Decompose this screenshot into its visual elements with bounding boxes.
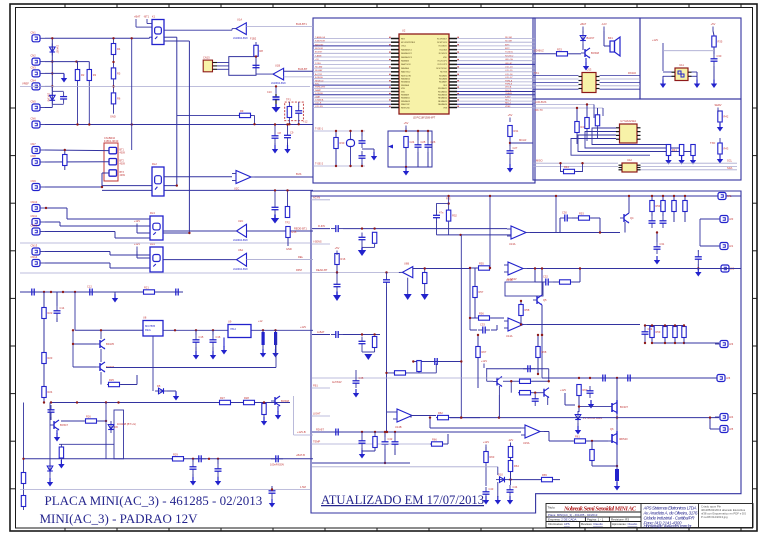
wire (411, 415, 436, 417)
svg-text:RB0/AN12: RB0/AN12 (401, 78, 410, 81)
capacitor C31 (654, 242, 665, 254)
transistor BC548 (581, 48, 599, 58)
connector CN7 (31, 142, 46, 154)
capacitor (359, 436, 366, 448)
svg-text:J20: J20 (729, 217, 734, 221)
wire (448, 196, 450, 210)
svg-text:BUZ-BT1: BUZ-BT1 (296, 22, 307, 26)
svg-text:+5V: +5V (335, 246, 340, 250)
resistor R29 (171, 452, 185, 461)
svg-text:K1: K1 (152, 15, 156, 19)
ground arrow large 2 (271, 215, 279, 224)
diode (47, 463, 53, 475)
wire (587, 440, 608, 442)
ground (614, 482, 620, 491)
wire (149, 37, 151, 38)
svg-text:100nF/630V: 100nF/630V (270, 463, 284, 467)
resistor R64 (508, 461, 519, 472)
svg-text:4u7/63V: 4u7/63V (507, 277, 517, 281)
svg-text:SCL: SCL (727, 159, 733, 163)
svg-text:U1A: U1A (237, 18, 242, 22)
wire (114, 292, 116, 295)
ground (47, 478, 53, 487)
op-amp U6B left-pointing (402, 262, 412, 278)
wire (387, 411, 393, 413)
svg-text:+5V: +5V (508, 113, 513, 117)
resistor R21 (142, 286, 156, 295)
svg-text:RX-TX: RX-TX (535, 108, 543, 112)
ground (575, 426, 581, 435)
svg-text:Q5: Q5 (543, 298, 547, 302)
svg-text:Titulo:: Titulo: (548, 506, 556, 510)
wire (247, 259, 314, 261)
svg-text:RA4/T0CKI: RA4/T0CKI (401, 63, 411, 66)
svg-text:R9: R9 (240, 109, 244, 113)
svg-text:RA7/CLKIN: RA7/CLKIN (401, 74, 411, 77)
svg-text:Q6: Q6 (610, 427, 614, 431)
svg-text:1N4148 (BT LG): 1N4148 (BT LG) (117, 422, 136, 426)
wire (72, 330, 74, 344)
svg-text:CN9: CN9 (31, 179, 37, 183)
wire (709, 418, 711, 429)
ground arrow large (272, 104, 281, 113)
svg-text:MINI(AC_3) - PADRAO 12V: MINI(AC_3) - PADRAO 12V (40, 511, 199, 526)
svg-text:RD-BT: RD-BT (316, 428, 324, 432)
bus wires opto left (533, 76, 640, 90)
wire (287, 190, 289, 206)
svg-text:R24: R24 (48, 390, 53, 394)
IC U2 PIC16F1939 body (399, 34, 449, 114)
svg-text:R26: R26 (86, 415, 91, 419)
wire (448, 222, 450, 235)
svg-text:LCD-E: LCD-E (315, 103, 322, 105)
resistor (372, 337, 376, 348)
wire (656, 233, 658, 243)
connector J26 (712, 375, 731, 382)
wire (559, 218, 561, 233)
ground (353, 389, 359, 398)
resistor R61 (573, 435, 587, 444)
wire (246, 26, 313, 28)
resistor (373, 437, 377, 448)
ground (215, 477, 221, 486)
svg-text:SDA: SDA (727, 166, 733, 170)
op-amp U13B (504, 262, 527, 282)
wire gate chain (544, 431, 549, 433)
wire (530, 232, 560, 234)
ground arrow large c4 (364, 354, 372, 360)
svg-text:CN4: CN4 (31, 78, 37, 82)
speaker BZ1 (608, 36, 620, 56)
wire (510, 142, 533, 144)
jumper JP3 (109, 170, 125, 177)
svg-text:LCD-D7: LCD-D7 (505, 77, 513, 79)
svg-text:U11: U11 (679, 63, 684, 67)
wire (663, 71, 672, 73)
svg-text:RE0/AN26: RE0/AN26 (438, 103, 447, 106)
ground arrow large c3 (421, 294, 429, 300)
wire (384, 432, 386, 437)
svg-text:TXD: TXD (710, 141, 715, 145)
op-amp U6A left-pointing (233, 248, 248, 271)
svg-text:T-SE-1: T-SE-1 (315, 127, 324, 131)
svg-text:R-INV: R-INV (318, 224, 325, 228)
capacitor 47n (433, 211, 444, 223)
connector J22 (716, 265, 735, 272)
svg-text:+12V: +12V (560, 388, 566, 392)
wire (77, 61, 90, 63)
svg-text:DRV-B: DRV-B (505, 90, 512, 92)
IC U7 MAX232A (616, 119, 641, 143)
capacitor C45 (353, 376, 364, 388)
connector CN3 (31, 65, 46, 77)
wire (45, 207, 67, 209)
wire y361 (413, 361, 461, 363)
svg-text:RC3/SCK: RC3/SCK (439, 53, 448, 55)
resistor R5 (111, 68, 121, 79)
connector CN9 (31, 179, 46, 191)
svg-text:CN1: CN1 (31, 30, 37, 34)
ground arrow large c1 (333, 292, 341, 302)
svg-text:RD4/AN7: RD4/AN7 (439, 81, 447, 84)
wire (331, 431, 521, 433)
svg-text:RB5/AN13: RB5/AN13 (401, 100, 410, 103)
wire (497, 482, 499, 497)
regulator U8 7805 (143, 321, 163, 337)
wire (417, 131, 419, 140)
jumper JP1 (109, 147, 125, 154)
wire (520, 301, 522, 304)
wire (509, 124, 511, 126)
svg-text:+12V: +12V (134, 219, 140, 223)
svg-text:+BAT: +BAT (580, 22, 587, 26)
wire (336, 273, 338, 280)
wire (64, 150, 66, 154)
svg-text:CN6: CN6 (31, 117, 37, 121)
bus net labels mcu left (315, 36, 326, 108)
svg-text:CN11: CN11 (31, 214, 38, 218)
net label +5V (404, 121, 409, 130)
capacitor (587, 386, 594, 398)
svg-text:R-S: R-S (446, 197, 451, 201)
op-amp U1A left-pointing (233, 18, 248, 41)
capacitor (523, 365, 535, 372)
svg-text:R31: R31 (514, 129, 519, 133)
resistor (518, 391, 532, 395)
svg-text:C43: C43 (489, 487, 494, 491)
relay RL2 (152, 162, 164, 196)
connector CN12 (31, 224, 46, 236)
svg-text:+BAT: +BAT (134, 15, 141, 19)
wire (100, 330, 102, 339)
wire (192, 459, 194, 462)
capacitor C30 (560, 211, 572, 222)
svg-text:SERV: SERV (714, 103, 721, 107)
resistor R3 (87, 70, 97, 81)
wire (508, 479, 540, 481)
wire (510, 445, 512, 446)
op-amp U1B left-pointing (271, 64, 286, 86)
wire (254, 115, 256, 124)
capacitor C16 (210, 335, 221, 347)
cap loop (437, 204, 449, 235)
svg-text:REL-2: REL-2 (505, 103, 512, 105)
wire (72, 344, 74, 367)
svg-text:RL3: RL3 (150, 211, 155, 215)
ground (272, 349, 278, 358)
wire (498, 386, 500, 395)
svg-text:S-REDE: S-REDE (315, 93, 323, 95)
capacitor C27 (507, 146, 518, 158)
svg-text:47n: 47n (439, 211, 444, 215)
wire y124 extension (310, 124, 313, 126)
resistor R26 (84, 415, 98, 424)
svg-text:GND: GND (286, 247, 292, 251)
wire row CN4 (45, 85, 52, 87)
svg-text:R15: R15 (292, 230, 297, 234)
capacitor (430, 358, 442, 365)
svg-text:R55: R55 (479, 262, 484, 266)
bus wire entry (311, 199, 330, 201)
wire (510, 472, 512, 485)
bus wires mcu right (457, 39, 535, 108)
svg-text:RC4/SDI: RC4/SDI (440, 49, 448, 51)
wire (247, 230, 314, 232)
wire long y378 (542, 377, 717, 379)
loop rect (114, 410, 124, 459)
wire vertical x131 (131, 38, 133, 150)
wire (163, 329, 313, 331)
wire (232, 28, 236, 30)
svg-text:BUZ-BT: BUZ-BT (298, 67, 308, 71)
transistor (493, 377, 502, 387)
wire K1 right top (164, 29, 232, 31)
IC U2 pin names (401, 38, 448, 109)
wire (485, 496, 487, 498)
svg-text:LIGHT: LIGHT (313, 412, 321, 416)
svg-text:J26: J26 (726, 376, 731, 380)
bus wire (663, 50, 714, 52)
wire (564, 393, 566, 405)
resistor (673, 327, 677, 338)
connector CN8 (31, 154, 46, 166)
wire (56, 292, 58, 306)
wire (548, 369, 550, 382)
svg-text:Aprovacao: Claudio: Aprovacao: Claudio (612, 522, 638, 526)
wire (45, 251, 110, 253)
bus wire y272 entry (312, 272, 399, 274)
svg-text:PWM-A: PWM-A (505, 79, 513, 82)
wire (477, 335, 479, 346)
svg-text:MCLR: MCLR (519, 138, 526, 142)
wire (554, 479, 560, 481)
net label +5V (711, 22, 716, 31)
svg-text:R5: R5 (117, 71, 121, 75)
wire rail y330 (75, 329, 143, 331)
wire (474, 268, 476, 286)
svg-text:CN8: CN8 (31, 154, 37, 158)
title block field labels (548, 506, 638, 527)
bus wire (312, 466, 498, 468)
resistor (661, 201, 665, 212)
ground (359, 450, 365, 459)
svg-text:RC2/CCP1: RC2/CCP1 (438, 61, 447, 63)
resistor R27 (218, 396, 232, 405)
wire row CN2 (45, 61, 77, 63)
capacitor C8 (272, 131, 282, 143)
svg-text:MC7805: MC7805 (145, 324, 156, 328)
svg-text:LCD-BUS: LCD-BUS (535, 100, 547, 104)
wire (662, 76, 664, 80)
svg-text:C24: C24 (410, 140, 415, 144)
wire (136, 251, 138, 258)
diode (50, 44, 56, 56)
wire (312, 462, 410, 464)
resistor R42 (718, 111, 729, 122)
resistor R25 (107, 378, 121, 387)
wire (668, 144, 670, 147)
wire (45, 149, 109, 152)
wire (624, 222, 626, 233)
wire (532, 392, 540, 394)
wire y228 long (343, 228, 507, 230)
svg-text:1N4148: 1N4148 (47, 93, 50, 102)
svg-text:7812: 7812 (230, 327, 236, 331)
capacitor C30 (711, 54, 722, 66)
wire (271, 486, 273, 490)
wire (61, 420, 84, 422)
svg-text:TP2: TP2 (285, 221, 290, 225)
wire (394, 432, 396, 437)
resistor (393, 371, 407, 375)
bus wire (533, 104, 594, 106)
svg-text:BT-EST: BT-EST (315, 52, 323, 54)
connector CN4 (31, 78, 46, 90)
svg-text:R65: R65 (542, 473, 547, 477)
resistor R15 (286, 227, 297, 238)
svg-text:C30: C30 (562, 211, 567, 215)
bus wire entry (311, 387, 330, 389)
wire nest loops (571, 128, 693, 155)
resistor R16 (335, 254, 346, 265)
resistor R55 (477, 262, 491, 271)
IC U11 (672, 63, 692, 81)
svg-text:+5V: +5V (711, 22, 716, 26)
wire (288, 118, 290, 124)
capacitor (359, 233, 366, 245)
net label -12V (601, 22, 607, 31)
wire (386, 273, 388, 276)
svg-text:PWM-DRV: PWM-DRV (315, 87, 326, 89)
ground (371, 152, 377, 161)
svg-text:RD6/AN5: RD6/AN5 (439, 74, 447, 77)
svg-text:R59: R59 (656, 330, 661, 334)
svg-text:NTC: NTC (315, 84, 320, 86)
svg-text:R57: R57 (479, 290, 484, 294)
wire x386 long vertical (386, 287, 388, 433)
capacitor (215, 464, 222, 476)
svg-text:Informacao: APS: Informacao: APS (548, 522, 570, 526)
connector CN6 (31, 117, 46, 129)
title block address (643, 506, 699, 529)
wire loop rect (229, 57, 256, 76)
wire (287, 238, 289, 246)
wire (444, 443, 448, 445)
svg-text:RA6/OSC2: RA6/OSC2 (401, 71, 410, 74)
capacitor (331, 225, 343, 232)
wire (527, 324, 640, 326)
connector J25 (715, 426, 734, 433)
resistor (21, 473, 25, 484)
bus wire rail (313, 165, 365, 167)
wire (361, 131, 363, 136)
capacitor (272, 203, 279, 215)
svg-text:U2 PIC16F1939-I/PT: U2 PIC16F1939-I/PT (413, 117, 436, 120)
svg-text:R4: R4 (117, 47, 121, 51)
resistor R9 (238, 109, 252, 118)
svg-text:LCD-D5: LCD-D5 (505, 70, 513, 72)
wire (45, 231, 115, 233)
resistor R24 (42, 387, 53, 398)
wire (102, 185, 177, 187)
net label -12V (508, 438, 514, 447)
resistor R68 (536, 347, 547, 358)
svg-text:BD135: BD135 (106, 342, 114, 346)
wire (684, 342, 719, 344)
svg-text:C44: C44 (513, 485, 518, 489)
svg-text:RX232: RX232 (628, 71, 636, 75)
ground arrow large c2 (404, 294, 412, 300)
wire input2 (437, 234, 512, 236)
svg-text:LM2904-6N8: LM2904-6N8 (233, 239, 248, 242)
bus wire (20, 242, 310, 244)
resistor (59, 447, 63, 458)
ground (665, 156, 671, 165)
svg-text:C14: C14 (60, 306, 65, 310)
IC U13 (579, 68, 600, 93)
wire (645, 325, 684, 327)
wire (532, 380, 549, 382)
svg-text:+12: +12 (303, 120, 308, 124)
diode D5 (155, 384, 167, 394)
wire (430, 427, 521, 429)
wire (616, 414, 618, 431)
resistor R53 (577, 212, 591, 221)
svg-text:VDD: VDD (401, 91, 406, 93)
svg-text:RB3/AN9: RB3/AN9 (401, 94, 409, 97)
ground (495, 496, 501, 505)
resistor R66 (430, 438, 444, 447)
resistor (518, 379, 532, 383)
diode D6 (108, 421, 118, 433)
capacitor (598, 375, 610, 382)
svg-text:+12V: +12V (481, 359, 487, 363)
net label +12V (134, 219, 140, 228)
wire op-amp out (255, 176, 313, 178)
svg-text:CN7: CN7 (31, 142, 37, 146)
svg-text:R64: R64 (514, 464, 519, 468)
svg-text:J25: J25 (729, 427, 734, 431)
block outline comms section (533, 99, 741, 180)
svg-text:R2: R2 (81, 73, 85, 77)
diode D10 (496, 473, 508, 483)
resistor R23 (42, 353, 53, 364)
wire (486, 368, 488, 381)
wire (535, 281, 541, 283)
feedback rect (505, 282, 543, 296)
bus wire (533, 107, 603, 109)
capacitor electrolytic C18 (274, 332, 277, 345)
